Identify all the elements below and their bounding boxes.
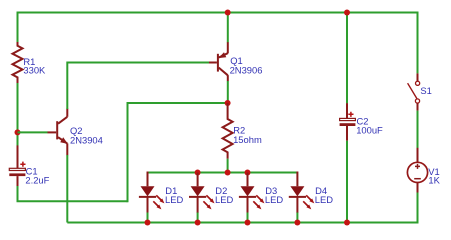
wire riser up to Q1 collector node	[128, 103, 228, 202]
wire right vertical top to switch	[417, 12, 419, 74]
svg-text:LED: LED	[315, 194, 333, 205]
wire R1 bottom to C1	[17, 83, 19, 146]
node junction dot Q1 collector / R2 / C1 riser	[225, 100, 231, 106]
transistor Q2 2N3904	[48, 109, 68, 156]
wire R2 bottom to LED rail	[227, 159, 229, 173]
svg-text:2.2uF: 2.2uF	[25, 175, 49, 186]
svg-text:1K: 1K	[428, 175, 440, 186]
svg-text:S1: S1	[420, 85, 431, 96]
node junction dot D3 anode	[245, 170, 251, 176]
wire LED anode rail	[148, 172, 298, 174]
node junction dot R1/C1/Q2-base	[15, 129, 21, 135]
wire Q2 emitter down to bottom rail	[66, 155, 68, 223]
wire C2 top	[346, 13, 348, 104]
wire C2 bottom	[346, 141, 348, 223]
resistor R1	[13, 42, 23, 83]
node junction dot C2 / bottom rail	[344, 220, 350, 226]
svg-text:100uF: 100uF	[356, 125, 383, 136]
wire C1 bottom run to riser	[18, 186, 128, 201]
switch S1	[408, 73, 420, 110]
LED D3	[239, 173, 265, 214]
node junction dot D3 cathode	[245, 220, 251, 226]
LED D2	[189, 173, 215, 214]
node junction dot Q1 emitter / top rail	[225, 10, 231, 16]
transistor Q1 2N3906	[209, 42, 228, 81]
LED D1	[139, 172, 165, 214]
wire D2 cathode stub	[197, 213, 199, 223]
resistor R2	[223, 103, 233, 159]
svg-text:15ohm: 15ohm	[233, 134, 262, 145]
wire left vertical from top rail to R1	[17, 12, 19, 43]
wire Q1 emitter to top rail	[227, 13, 229, 43]
svg-text:330K: 330K	[23, 65, 46, 76]
capacitor C2	[340, 103, 356, 141]
node junction dot D2 anode	[195, 170, 201, 176]
svg-text:LED: LED	[265, 194, 283, 205]
voltage source V1	[407, 148, 427, 193]
wire D3 cathode stub	[247, 213, 249, 223]
wire Q2 collector up and right to Q1 base	[67, 63, 209, 110]
wire D4 cathode stub	[296, 213, 298, 223]
wire Q2 base net	[18, 131, 48, 133]
svg-text:2N3906: 2N3906	[230, 65, 263, 76]
LED D4	[289, 172, 315, 214]
svg-text:LED: LED	[165, 194, 183, 205]
svg-text:2N3904: 2N3904	[70, 135, 103, 146]
wire V1 bottom to rail	[417, 193, 419, 223]
wire Q1 collector down to node	[227, 81, 229, 103]
svg-text:LED: LED	[215, 194, 233, 205]
capacitor C1	[9, 145, 25, 186]
node junction dot C2 / top rail	[344, 10, 350, 16]
node junction dot D4 cathode	[294, 220, 300, 226]
wire top supply rail	[18, 12, 418, 14]
node junction dot D1 cathode	[145, 220, 151, 226]
wire bottom rail	[67, 222, 418, 224]
node junction dot R2 / LED rail	[225, 170, 231, 176]
node junction dot D2 cathode	[195, 220, 201, 226]
wire switch to V1	[417, 111, 419, 148]
wire D1 cathode stub	[147, 213, 149, 223]
